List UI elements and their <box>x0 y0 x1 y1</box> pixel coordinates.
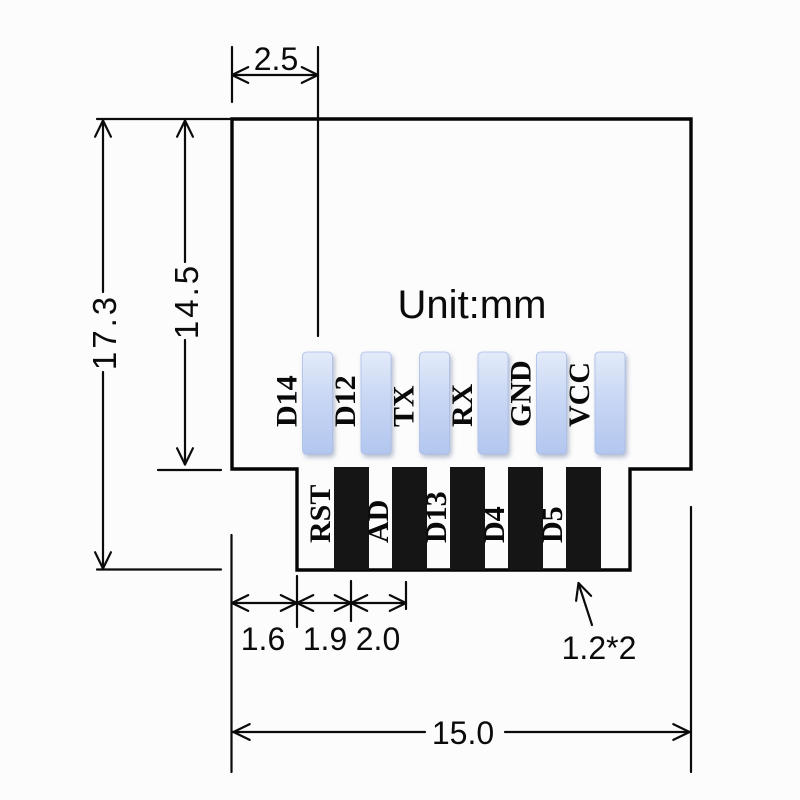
bottom pad D4 <box>508 467 543 570</box>
14.5 bottom extension line <box>158 469 221 471</box>
dimension 2.5 leader line to first pad center <box>317 47 319 336</box>
svg-text:TX: TX <box>388 385 421 427</box>
top pad D12 <box>361 352 391 454</box>
svg-text:17.3: 17.3 <box>86 294 123 370</box>
dimension 2.5 arrow line <box>232 67 318 83</box>
svg-text:1.6: 1.6 <box>241 621 285 657</box>
bottom pad RST <box>334 467 369 570</box>
dimension 2.5 extension line (body left, above) <box>231 47 233 102</box>
dimension 17.3 arrow line <box>95 121 111 569</box>
svg-text:D5: D5 <box>536 506 569 543</box>
svg-text:1.2*2: 1.2*2 <box>562 630 637 666</box>
module body outline <box>232 119 691 570</box>
bottom pad D13 <box>450 467 485 570</box>
svg-text:15.0: 15.0 <box>432 715 494 751</box>
svg-text:2.5: 2.5 <box>254 41 298 77</box>
tab left extension line <box>296 576 298 627</box>
svg-text:RX: RX <box>446 383 479 427</box>
dimension arrows 1.6 / 1.9 / 2.0 <box>232 595 406 611</box>
svg-text:1.9: 1.9 <box>303 621 347 657</box>
svg-text:D12: D12 <box>329 375 362 427</box>
dimension 14.5 arrow line <box>177 121 193 465</box>
right extension line (body right, below) <box>690 507 692 772</box>
top extension line <box>97 118 232 120</box>
top pad RX <box>478 352 508 454</box>
callout arrow 1.2*2 <box>576 583 592 625</box>
svg-text:2.0: 2.0 <box>356 621 400 657</box>
top pad D14 <box>303 352 333 454</box>
svg-text:GND: GND <box>505 360 538 427</box>
pad RST center extension line <box>350 581 352 621</box>
svg-text:D13: D13 <box>420 491 453 543</box>
svg-text:Unit:mm: Unit:mm <box>398 283 547 327</box>
svg-text:AD: AD <box>362 500 395 543</box>
svg-text:D4: D4 <box>478 506 511 543</box>
svg-text:RST: RST <box>304 485 337 543</box>
svg-text:14.5: 14.5 <box>168 263 205 339</box>
17.3 bottom extension line <box>97 568 221 570</box>
svg-text:D14: D14 <box>271 375 304 427</box>
top pad VCC <box>595 352 625 454</box>
svg-text:VCC: VCC <box>563 362 596 427</box>
top pad TX <box>420 352 450 454</box>
pad AD center extension line <box>405 582 407 609</box>
bottom pad D5 <box>566 467 601 570</box>
dimension 15.0 arrow line <box>232 724 691 740</box>
bottom pad AD <box>392 467 427 570</box>
top pad GND <box>537 352 567 454</box>
left extension line (body left, below) <box>230 535 232 772</box>
